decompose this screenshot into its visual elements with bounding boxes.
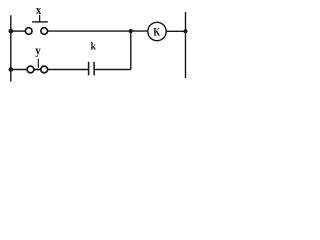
label y	[35, 43, 41, 58]
label x	[36, 3, 41, 17]
relay contact k (normally open)	[89, 62, 95, 76]
junction dot: left rail / bottom rung	[9, 67, 14, 72]
label K	[153, 26, 161, 39]
left supply rail	[10, 15, 12, 81]
wire: left rail to switch y and on to contact k	[11, 69, 89, 71]
right supply rail	[185, 12, 187, 78]
wire: switch x to node A	[47, 30, 148, 32]
wire: branch riser up to node A	[130, 31, 132, 69]
svg-text:k: k	[91, 41, 97, 53]
junction dot: right rail / coil wire	[184, 29, 188, 33]
svg-text:x: x	[36, 3, 41, 17]
junction dot: left rail / top rung	[9, 29, 14, 34]
wire: contact k to branch corner	[94, 69, 131, 71]
svg-text:K: K	[153, 26, 161, 39]
label k	[91, 41, 97, 53]
pushbutton switch y (normally-closed break contact)	[27, 59, 47, 73]
junction dot: node A	[129, 29, 133, 33]
relay coil K	[148, 22, 166, 40]
pushbutton switch x (normally-open make contact)	[25, 15, 47, 34]
svg-text:y: y	[35, 43, 41, 58]
wire: left rail to switch x	[11, 30, 26, 32]
wire: coil K to right rail	[166, 30, 185, 32]
